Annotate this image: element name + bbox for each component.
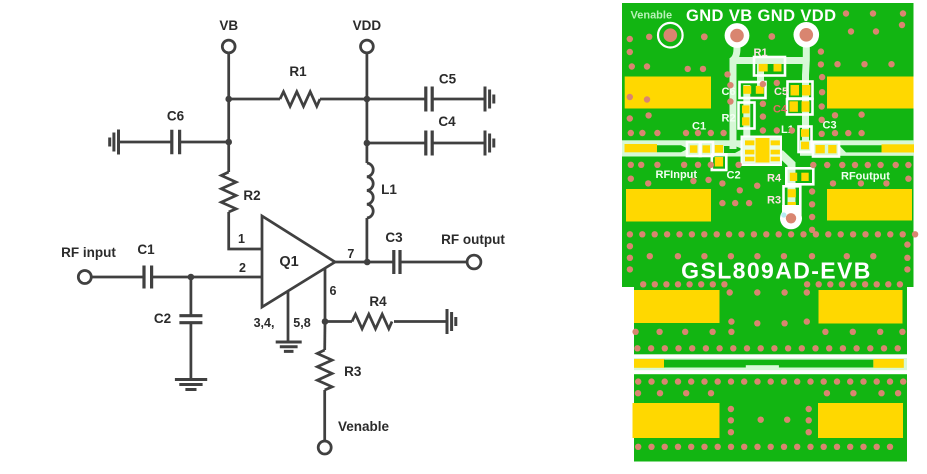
ground below Q1 bbox=[276, 342, 302, 351]
svg-text:C2: C2 bbox=[154, 311, 171, 326]
resistor R3 bbox=[317, 350, 362, 390]
svg-text:L1: L1 bbox=[381, 182, 397, 197]
wire VDD down bbox=[366, 53, 369, 99]
svg-text:RFoutput: RFoutput bbox=[841, 171, 890, 183]
footprint IC Q1 bbox=[742, 137, 782, 166]
PCB via dots bbox=[627, 10, 919, 450]
svg-text:R3: R3 bbox=[344, 364, 362, 379]
svg-text:C2: C2 bbox=[727, 170, 741, 182]
ground right of C4 bbox=[485, 131, 494, 156]
svg-text:2: 2 bbox=[239, 261, 246, 275]
resistor R2 bbox=[221, 172, 260, 212]
svg-text:R3: R3 bbox=[767, 195, 781, 207]
footprint C6 bbox=[722, 82, 766, 98]
big pad VB bbox=[725, 23, 750, 48]
op-amp Q1 bbox=[262, 216, 335, 307]
terminal Venable bbox=[318, 419, 389, 454]
wire VB column down bbox=[227, 99, 230, 172]
pad section2 left bbox=[634, 290, 720, 323]
wire top rail left bbox=[229, 98, 280, 101]
svg-text:C5: C5 bbox=[439, 72, 457, 87]
svg-text:C4: C4 bbox=[438, 114, 456, 129]
wire pin6 down bbox=[324, 268, 327, 321]
wire R2 to pin1 bbox=[229, 212, 262, 249]
svg-text:Venable: Venable bbox=[338, 419, 390, 434]
big pad VDD bbox=[794, 22, 820, 48]
via near VB bbox=[701, 33, 708, 40]
ground left of C6 bbox=[110, 130, 119, 155]
trace top horizontal VB to VDD bbox=[733, 57, 806, 64]
svg-text:GND VB GND VDD: GND VB GND VDD bbox=[686, 7, 836, 25]
pad section4 right bbox=[818, 403, 903, 438]
footprint C5 bbox=[774, 82, 813, 99]
PCB footprints bbox=[687, 47, 839, 229]
pad Y4 mid-right bbox=[827, 189, 912, 221]
footprint R4 bbox=[767, 168, 813, 184]
pad Y3 mid-left bbox=[626, 189, 711, 222]
PCB stripe section 3 bbox=[634, 358, 907, 370]
svg-text:3,4,: 3,4, bbox=[254, 316, 275, 330]
ground right of R4 bbox=[447, 309, 456, 334]
svg-text:R4: R4 bbox=[369, 294, 387, 309]
trace C6/R2 column to IC bbox=[743, 85, 750, 140]
wire R4 to ground bbox=[394, 320, 447, 323]
pad Y1 top-left bbox=[625, 77, 711, 109]
capacitor C5 bbox=[426, 72, 457, 112]
svg-text:RF input: RF input bbox=[61, 245, 116, 260]
footprint C4 bbox=[773, 99, 813, 116]
footprint R1 bbox=[754, 47, 786, 76]
trace band to R4 R3 teardrop column bbox=[780, 153, 792, 218]
svg-text:7: 7 bbox=[347, 247, 354, 261]
pad section4 left bbox=[633, 403, 720, 438]
inductor L1 bbox=[367, 143, 397, 262]
resistor R4 bbox=[352, 294, 392, 329]
svg-text:C6: C6 bbox=[167, 109, 185, 124]
svg-text:C1: C1 bbox=[137, 242, 155, 257]
svg-text:R1: R1 bbox=[289, 64, 307, 79]
RF output band bbox=[800, 140, 914, 156]
footprint C3 bbox=[813, 120, 839, 157]
trace R1 left to C6 bbox=[757, 60, 764, 88]
teardrop pad Venable bbox=[780, 205, 802, 229]
node C2 junction bbox=[188, 274, 195, 281]
pad section2 right bbox=[819, 290, 903, 324]
capacitor C3 bbox=[385, 230, 403, 274]
trace VDD stem down through C5 C4 L1 bbox=[802, 36, 810, 148]
capacitor C6 bbox=[167, 109, 185, 155]
footprint L1 bbox=[781, 124, 812, 152]
wire C2 to ground bbox=[190, 323, 193, 379]
svg-text:Q1: Q1 bbox=[279, 254, 298, 270]
PCB board main section bbox=[622, 3, 914, 287]
wire pin2 bbox=[91, 276, 143, 279]
svg-text:5,8: 5,8 bbox=[293, 316, 310, 330]
wire C4 to ground bbox=[432, 142, 485, 145]
terminal RF input bbox=[61, 245, 116, 284]
svg-text:Venable: Venable bbox=[631, 10, 673, 22]
wire pin7 to C3 bbox=[335, 261, 393, 264]
node C6 junction bbox=[225, 139, 232, 146]
via near VDD bbox=[768, 33, 775, 40]
svg-text:VB: VB bbox=[219, 18, 238, 33]
wire C2 up bbox=[190, 277, 193, 315]
node output junction bbox=[364, 259, 371, 266]
svg-text:RF output: RF output bbox=[441, 232, 505, 247]
svg-text:C3: C3 bbox=[823, 120, 837, 132]
wire pin5-8 down bbox=[287, 291, 290, 341]
capacitor C2 bbox=[154, 311, 203, 326]
wire R3 to Venable bbox=[323, 390, 326, 441]
wire node6 to R4 bbox=[325, 320, 352, 323]
wire node6 to R3 bbox=[323, 322, 326, 351]
wire C5 to ground bbox=[432, 98, 485, 101]
svg-text:C5: C5 bbox=[774, 86, 788, 98]
node C4 junction bbox=[364, 140, 371, 147]
svg-text:R4: R4 bbox=[767, 173, 782, 185]
terminal VB bbox=[219, 18, 238, 53]
ground right of C5 bbox=[485, 87, 494, 112]
node VDD rail bbox=[364, 96, 371, 103]
wire node to C4 bbox=[367, 142, 425, 145]
footprint C1 bbox=[687, 121, 713, 157]
svg-text:C6: C6 bbox=[722, 86, 736, 98]
svg-text:C4: C4 bbox=[773, 104, 788, 116]
terminal RF output bbox=[441, 232, 505, 269]
trace VB stem down to input band bbox=[733, 36, 737, 149]
svg-text:C3: C3 bbox=[385, 230, 403, 245]
svg-text:1: 1 bbox=[238, 232, 245, 246]
node pin6 junction bbox=[322, 318, 329, 325]
wire VB down bbox=[227, 53, 230, 99]
svg-text:R2: R2 bbox=[243, 188, 260, 203]
big pad Venable bbox=[658, 23, 683, 48]
resistor R1 bbox=[280, 64, 320, 106]
wire R1 to C5 bbox=[320, 98, 425, 101]
wire C6 to node bbox=[180, 141, 229, 144]
terminal VDD bbox=[353, 18, 382, 53]
capacitor C4 bbox=[426, 114, 456, 156]
node VB rail bbox=[225, 96, 232, 103]
PCB board section 2 bbox=[634, 287, 907, 354]
wire C3 to RF output bbox=[400, 261, 467, 264]
svg-text:R1: R1 bbox=[754, 47, 768, 59]
svg-text:VDD: VDD bbox=[353, 18, 382, 33]
footprint R2 bbox=[722, 103, 755, 129]
wire C1 to pin2 bbox=[152, 276, 262, 279]
footprint R3 bbox=[767, 186, 800, 214]
wire ground to C6 bbox=[119, 141, 172, 144]
svg-text:6: 6 bbox=[330, 284, 337, 298]
capacitor C1 bbox=[137, 242, 155, 289]
RF input band bbox=[622, 140, 745, 156]
pad Y2 top-right bbox=[827, 77, 914, 109]
ground below C2 bbox=[175, 380, 207, 390]
svg-text:R2: R2 bbox=[722, 113, 736, 125]
footprint C2 bbox=[712, 145, 741, 182]
svg-text:GSL809AD-EVB: GSL809AD-EVB bbox=[681, 258, 872, 284]
PCB board section 4 bbox=[634, 374, 907, 461]
wire VDD column to C4 node bbox=[366, 99, 369, 143]
